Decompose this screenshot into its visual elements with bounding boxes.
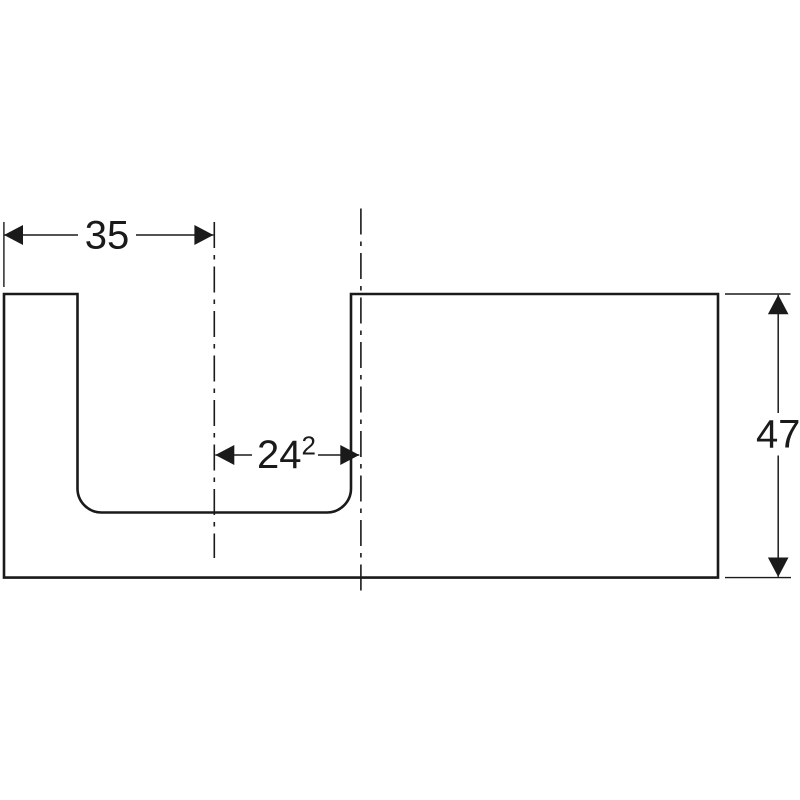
centerline A (cutout left reference axis) [213, 222, 215, 558]
centerline B (cutout right reference axis) [360, 205, 362, 591]
svg-text:242: 242 [257, 431, 316, 478]
dimension 24 right arrow [340, 445, 359, 465]
dimension 35 right arrow [194, 225, 213, 245]
dimension 35 line [4, 234, 78, 236]
dimension 24 line [215, 454, 252, 456]
extension line left (dim 35) [3, 222, 5, 287]
dimension 35 left arrow [4, 225, 23, 245]
dimension 47 bottom arrow [768, 558, 789, 578]
svg-text:35: 35 [85, 213, 130, 257]
svg-text:47: 47 [756, 413, 800, 457]
extension line top right (dim 47) [725, 293, 791, 295]
dimension 47 top arrow [768, 295, 789, 315]
dimension 24 left arrow [215, 445, 234, 465]
dimension 47 line [777, 295, 779, 413]
countertop outline with basin cutout [4, 294, 718, 578]
extension line bottom right (dim 47) [725, 577, 791, 579]
